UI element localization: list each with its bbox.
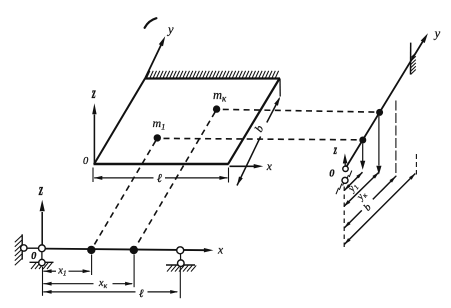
svg-text:ℓ: ℓ [139,288,144,300]
extension line v3 (to top support span) [395,101,397,178]
wire: dashed projection m1 -> right beam [164,138,359,139]
mass m1 on plate [154,134,161,141]
extension line from origin [42,267,44,296]
axis x (plate) [230,165,257,167]
axis y (plate) [145,41,163,79]
svg-text:0: 0 [31,251,37,262]
wire: dashed projection mk -> right beam [223,109,376,112]
svg-text:0: 0 [329,168,335,179]
hinge circle lower (right beam origin) [342,177,348,183]
svg-text:y: y [166,23,174,37]
dimension l (beam) [43,291,135,293]
wire: plate back edge [145,77,281,79]
mass dot 1 on beam [87,246,95,254]
dimension xk [43,283,93,285]
wire: plate front edge (along x-axis) [94,163,229,166]
dimension yk (oblique) [344,172,379,206]
svg-text:z: z [38,182,43,200]
ground line under left support [30,261,54,263]
svg-text:x: x [266,161,273,173]
dimension y1 (oblique) [344,172,362,190]
dimension x1 [43,270,56,272]
wire: plate left edge [94,79,145,165]
axis z (beam) [41,212,43,248]
wire: dashed projection mk -> bottom beam [135,112,215,249]
axis z (right beam) [344,163,346,166]
lower hinge circle (left support) [39,259,45,265]
wire: plate right edge [228,79,280,165]
hatching: origin support (right beam) [336,171,352,195]
svg-text:z: z [333,143,338,157]
wire: plate thickness edge at back-right corner [279,79,281,97]
svg-text:0: 0 [83,156,89,167]
hatching: plate clamped back edge [147,71,279,78]
stray pen flick near y arrow [145,18,157,28]
dimension b (oblique, right beam) [344,210,361,227]
svg-text:z: z [91,83,96,101]
hinge circle upper (right beam origin) [343,166,348,171]
extension from dot k with down arrow [378,116,380,166]
hatching: top support [411,53,416,75]
hinge circle at beam origin [39,245,46,252]
extension line from mass dot k [133,255,135,288]
beam line along y [345,38,425,169]
extension line v4 (from top support) [415,154,417,175]
svg-text:x: x [217,244,224,256]
mass dot k on beam [130,246,138,254]
extension line from mass dot 1 [91,255,93,276]
extension from dot 1 with down arrow [362,144,364,162]
wire: dashed projection m1 -> bottom beam [92,141,156,249]
mass mk on plate [213,105,220,112]
dimension b (plate width, along right edge) [237,137,261,186]
projected mass dot k (right beam) [376,109,383,116]
svg-text:y: y [433,27,441,41]
wall of left support [21,234,23,259]
beam line [45,249,206,251]
hinge circle on wall [21,245,27,251]
roller lower circle (right support) [178,260,185,267]
dimension line to top support (oblique, unlabeled) [344,174,415,245]
top support wall line [410,43,412,75]
dimension l (plate length) [92,168,94,183]
right support of bottom beam [180,254,182,261]
link to lower hinge [41,252,43,260]
wire: link wall-hinge to beam-hinge [26,247,40,249]
axis y (right beam) arrow [421,33,428,43]
axis z (plate) [93,115,95,164]
axis x (beam) arrow [204,248,214,252]
roller hinge on beam (right support) [177,247,184,254]
hatching: ground under right support [167,265,196,271]
projected mass dot 1 (right beam) [359,137,366,144]
extension line from right support [179,267,181,298]
hatching: ground under left support [31,263,52,269]
dashed extension below origin (right beam) [343,187,345,250]
ground line under right support [166,264,195,266]
svg-text:ℓ: ℓ [157,171,162,185]
hatching: left wall [15,235,22,265]
